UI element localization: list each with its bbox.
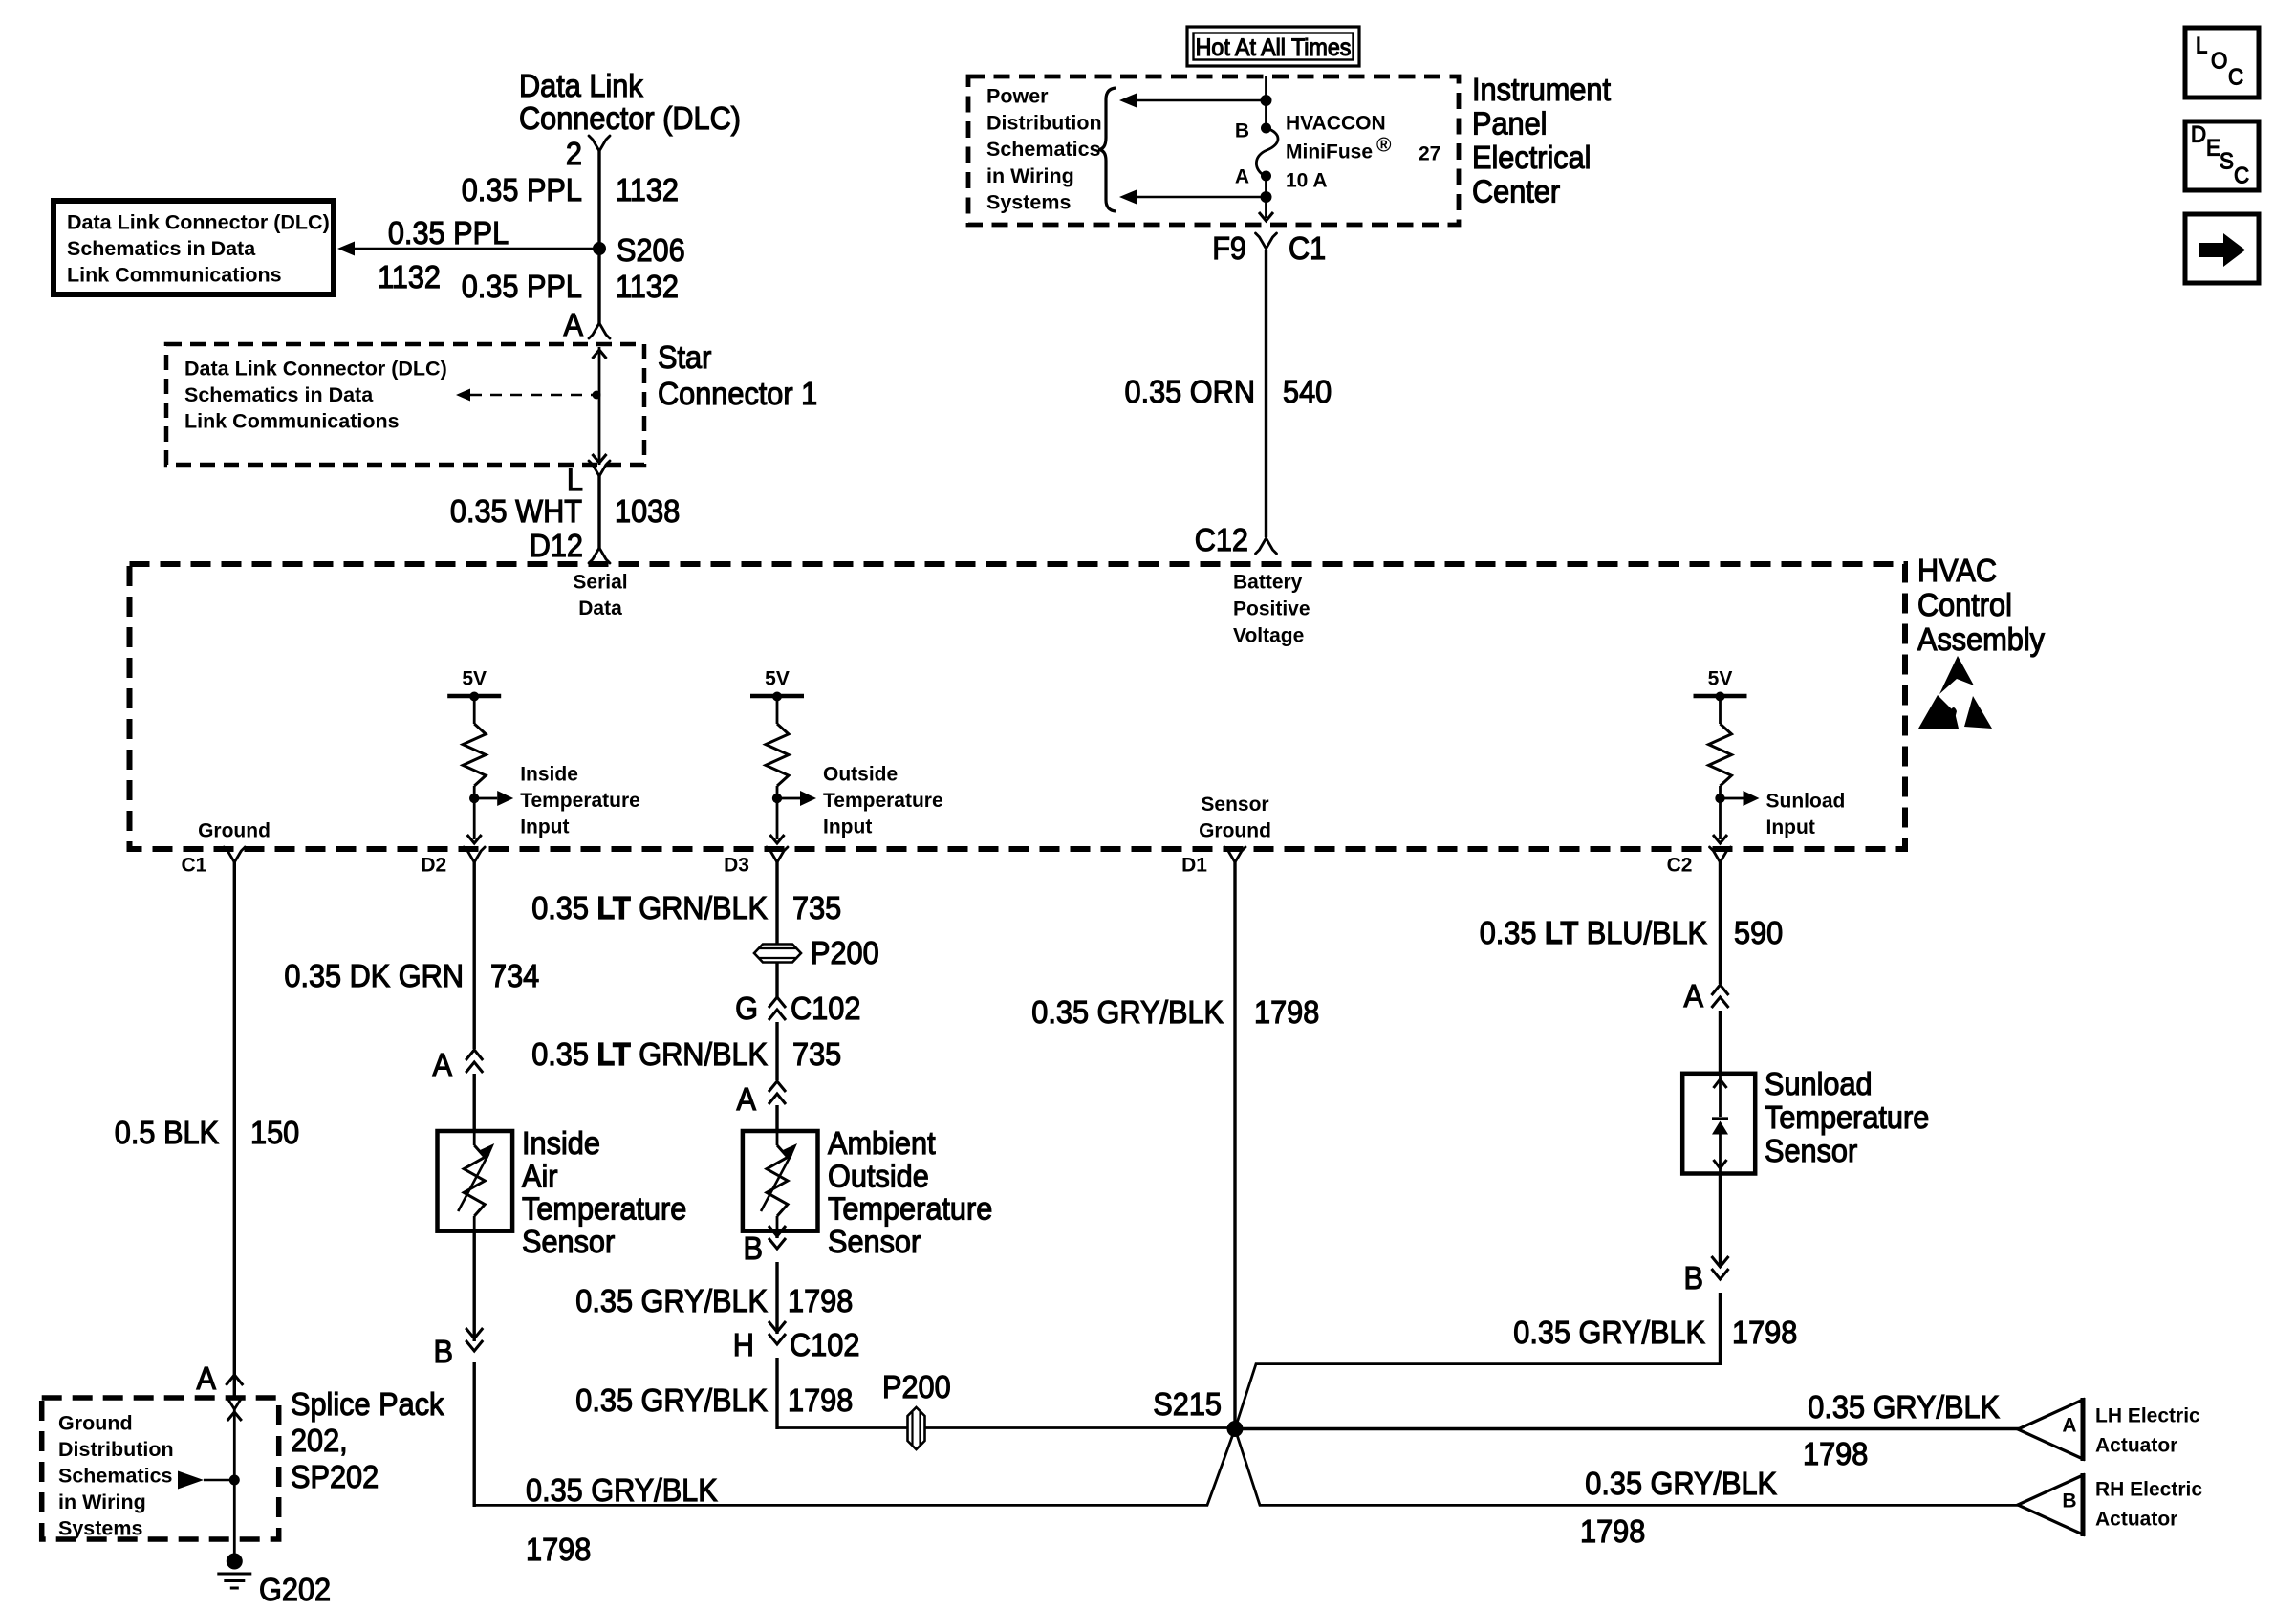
connector pin L of star connector — [567, 461, 610, 497]
component box Instrument Panel Electrical Center (dashed) — [968, 76, 1459, 225]
svg-text:G202: G202 — [259, 1572, 331, 1607]
label Sensor Ground (D1 pin) — [1199, 794, 1271, 842]
svg-text:Hot At All Times: Hot At All Times — [1196, 34, 1352, 61]
brace grouping power distribution text — [1098, 88, 1116, 211]
svg-text:Sensor: Sensor — [522, 1224, 615, 1259]
svg-text:P200: P200 — [811, 935, 879, 970]
svg-text:540: 540 — [1283, 374, 1332, 409]
wire from fuse A to C1 connector — [1265, 176, 1267, 218]
svg-text:1132: 1132 — [616, 269, 679, 304]
svg-text:Schematics: Schematics — [58, 1465, 173, 1488]
wire 1798 GRY/BLK from sunload B to S215 — [1235, 1174, 1721, 1429]
svg-text:735: 735 — [792, 1036, 841, 1072]
label 1798 (bottom left) — [526, 1532, 591, 1567]
resistor pull-up 5V #3 — [1709, 696, 1732, 798]
svg-text:1798: 1798 — [788, 1382, 853, 1418]
label Ambient Outside Temperature Sensor — [828, 1125, 992, 1259]
svg-text:D1: D1 — [1181, 854, 1207, 876]
connector F9 C1 of IP electrical center — [1212, 230, 1326, 266]
connector pin G of C102 — [735, 990, 860, 1026]
svg-text:Splice Pack: Splice Pack — [291, 1386, 444, 1422]
svg-text:Data Link Connector (DLC): Data Link Connector (DLC) — [184, 358, 447, 381]
label Battery Positive Voltage — [1233, 571, 1310, 646]
svg-text:Star: Star — [658, 339, 711, 375]
connector pin D1 of HVAC control — [1181, 847, 1245, 876]
svg-text:A: A — [197, 1360, 217, 1396]
svg-text:F9: F9 — [1212, 230, 1246, 266]
power 5V rail 5V #2 — [750, 667, 804, 701]
photodiode sunload sensor — [1712, 1074, 1728, 1174]
svg-text:Air: Air — [522, 1158, 558, 1193]
svg-text:1798: 1798 — [1732, 1315, 1797, 1350]
reference text Ground Distribution Schematics in Wiring Systems — [58, 1412, 174, 1540]
power 5V rail 5V #1 — [447, 667, 501, 701]
label 0.35 WHT 1038 — [450, 493, 680, 529]
svg-text:0.35 PPL: 0.35 PPL — [462, 172, 582, 207]
wire reference arrow A to power distribution — [1119, 190, 1267, 205]
svg-text:0.35 WHT: 0.35 WHT — [450, 493, 582, 529]
svg-text:0.35 ORN: 0.35 ORN — [1125, 374, 1256, 409]
connector pin D12 of HVAC control — [530, 528, 610, 563]
fuse pin B label — [1235, 120, 1271, 141]
wire into ambient sensor — [775, 1105, 778, 1131]
svg-text:Schematics: Schematics — [986, 138, 1101, 161]
label 1798 (RH) — [1580, 1513, 1645, 1549]
resistor pull-up 5V #1 — [463, 696, 486, 798]
wire 540 ORN from F9 to HVAC C12 — [1265, 250, 1267, 537]
svg-text:Schematics in Data: Schematics in Data — [67, 237, 256, 260]
connector pin C1 of HVAC control — [181, 847, 245, 876]
connector pin B of ambient sensor — [744, 1226, 787, 1266]
connector pin 2 of DLC — [566, 136, 610, 171]
svg-text:B: B — [1684, 1260, 1704, 1295]
wire 1798 GRY/BLK from D1 to S215 — [1233, 862, 1236, 1429]
svg-text:10 A: 10 A — [1286, 169, 1328, 191]
svg-text:Input: Input — [823, 816, 872, 838]
svg-text:L: L — [2196, 33, 2207, 59]
label HVAC Control Assembly — [1917, 553, 2045, 657]
svg-text:A: A — [564, 307, 584, 342]
connector pin B of sunload sensor — [1684, 1256, 1729, 1295]
svg-text:735: 735 — [792, 890, 841, 925]
svg-text:H: H — [733, 1327, 754, 1362]
svg-text:A: A — [1684, 978, 1704, 1013]
connector pin H of C102 — [733, 1321, 860, 1362]
svg-text:5V: 5V — [462, 667, 487, 689]
svg-text:Ground: Ground — [198, 819, 271, 841]
svg-text:1038: 1038 — [615, 493, 680, 529]
svg-text:E: E — [2206, 136, 2220, 162]
connector pin A of sunload sensor — [1684, 978, 1729, 1013]
label 0.35 GRY/BLK (bottom left) — [526, 1472, 718, 1508]
icon ESD sensitivity symbol — [1918, 656, 1992, 729]
reference text Power Distribution Schematics in Wiring Systems — [986, 85, 1102, 214]
power 5V rail 5V #3 — [1694, 667, 1747, 701]
label Sunload Input — [1766, 790, 1846, 838]
svg-text:590: 590 — [1734, 915, 1783, 950]
svg-text:Temperature: Temperature — [823, 790, 943, 812]
svg-text:RH Electric: RH Electric — [2095, 1478, 2202, 1500]
icon box arrow — [2185, 214, 2259, 283]
connector pin C12 of HVAC control — [1195, 522, 1277, 557]
svg-text:MiniFuse: MiniFuse — [1286, 141, 1373, 163]
label 0.35 PPL 1132 (lower) — [462, 269, 679, 304]
label Splice Pack 202 SP202 — [291, 1386, 444, 1494]
svg-text:Data: Data — [578, 598, 622, 620]
svg-text:A: A — [2062, 1414, 2076, 1436]
svg-text:C1: C1 — [181, 854, 206, 876]
label Sunload Temperature Sensor — [1765, 1066, 1929, 1168]
svg-text:0.35 GRY/BLK: 0.35 GRY/BLK — [526, 1472, 718, 1508]
label 0.35 GRY/BLK 1798 (D1) — [1031, 994, 1319, 1030]
svg-text:Battery: Battery — [1233, 571, 1303, 593]
label 0.35 DK GRN 734 — [284, 958, 539, 993]
thermistor ambient sensor — [761, 1131, 797, 1231]
svg-text:0.35 GRY/BLK: 0.35 GRY/BLK — [575, 1382, 768, 1418]
svg-text:Actuator: Actuator — [2095, 1434, 2177, 1456]
svg-text:HVAC: HVAC — [1917, 553, 1997, 588]
svg-text:Temperature: Temperature — [522, 1191, 686, 1227]
svg-text:0.35 GRY/BLK: 0.35 GRY/BLK — [1808, 1389, 2000, 1425]
svg-text:LH Electric: LH Electric — [2095, 1404, 2200, 1426]
svg-text:0.5 BLK: 0.5 BLK — [115, 1115, 219, 1150]
svg-text:Electrical: Electrical — [1472, 140, 1592, 175]
svg-text:Connector (DLC): Connector (DLC) — [519, 100, 741, 136]
connector B RH Electric Actuator — [2018, 1473, 2202, 1536]
svg-text:202,: 202, — [291, 1423, 348, 1458]
wire reference arrow B to power distribution — [1119, 94, 1267, 108]
label 0.35 LT GRN/BLK 735 (upper) — [531, 890, 841, 925]
svg-text:D3: D3 — [724, 854, 749, 876]
wire input arrow 5V #2 — [777, 791, 816, 806]
wire to pin 5V #1 — [467, 798, 482, 843]
svg-text:Sensor: Sensor — [1201, 794, 1268, 816]
svg-text:0.35 PPL: 0.35 PPL — [462, 269, 582, 304]
svg-text:Distribution: Distribution — [986, 111, 1102, 134]
svg-text:S: S — [2220, 149, 2234, 175]
connector into splice pack SP202 — [227, 1398, 242, 1421]
svg-text:D2: D2 — [421, 854, 446, 876]
wire 1132 PPL from DLC pin 2 to S206 — [597, 151, 600, 249]
fuse pin A label — [1235, 165, 1271, 187]
component box Sunload Temperature Sensor — [1682, 1074, 1755, 1174]
wire 150 BLK from C1 to splice pack — [233, 862, 236, 1398]
reference text DLC schematics in star box — [184, 358, 447, 433]
svg-text:Inside: Inside — [522, 1125, 600, 1161]
svg-text:Ground: Ground — [1199, 819, 1271, 841]
label Inside Temperature Input — [520, 763, 640, 838]
wire 1132 PPL branch to DLC schematics box — [337, 242, 599, 256]
svg-text:Positive: Positive — [1233, 598, 1310, 620]
component box Hot At All Times — [1187, 27, 1359, 66]
wire to pin 5V #2 — [770, 798, 785, 843]
svg-text:Panel: Panel — [1472, 106, 1548, 141]
wire 590 LT BLU/BLK from C2 to sensor A — [1719, 862, 1722, 1074]
svg-text:C2: C2 — [1667, 854, 1693, 876]
label 0.35 PPL (branch) — [388, 215, 509, 250]
wire 734 DK GRN from D2 to sensor A — [473, 862, 476, 1131]
wire 1038 WHT from star connector to HVAC D12 — [597, 476, 600, 548]
svg-text:1132: 1132 — [616, 172, 679, 207]
icon box LOC — [2185, 28, 2259, 98]
svg-text:1132: 1132 — [378, 259, 441, 294]
svg-text:0.35 PPL: 0.35 PPL — [388, 215, 509, 250]
label Star Connector 1 — [658, 339, 817, 411]
svg-text:0.35 LT GRN/BLK: 0.35 LT GRN/BLK — [531, 890, 768, 925]
label 0.35 LT BLU/BLK 590 — [1480, 915, 1784, 950]
svg-text:Voltage: Voltage — [1233, 624, 1304, 646]
svg-text:Outside: Outside — [823, 763, 898, 785]
svg-text:HVACCON: HVACCON — [1286, 112, 1386, 134]
svg-text:Instrument: Instrument — [1472, 72, 1611, 107]
node Data Link Connector (DLC) title — [519, 68, 741, 136]
label 0.5 BLK 150 — [115, 1115, 299, 1150]
wire 1132 PPL from S206 to star connector pin A — [597, 249, 600, 323]
wire input arrow 5V #1 — [474, 791, 513, 806]
ground G202 — [217, 1554, 331, 1608]
icon box DESC — [2185, 121, 2259, 190]
svg-text:P200: P200 — [882, 1369, 951, 1404]
label 0.35 PPL 1132 (upper) — [462, 172, 679, 207]
svg-text:0.35 LT BLU/BLK: 0.35 LT BLU/BLK — [1480, 915, 1707, 950]
svg-text:Link Communications: Link Communications — [67, 264, 282, 287]
svg-text:D: D — [2191, 122, 2206, 148]
wire from Hot At All Times into IP electrical center — [1265, 76, 1267, 126]
connector pin C2 of HVAC control — [1667, 847, 1731, 876]
svg-text:S206: S206 — [617, 232, 685, 268]
wire input arrow 5V #3 — [1721, 791, 1760, 806]
label 0.35 GRY/BLK 1798 (ambient upper) — [575, 1283, 853, 1318]
svg-text:Assembly: Assembly — [1917, 621, 2045, 657]
svg-text:1798: 1798 — [1254, 994, 1319, 1030]
wire splice pack internal — [233, 1409, 236, 1561]
splice S215 — [1153, 1386, 1243, 1437]
node splice junction with reference arrow — [178, 1471, 240, 1490]
svg-text:Data Link Connector (DLC): Data Link Connector (DLC) — [67, 211, 330, 234]
component box Ambient Outside Temperature Sensor — [743, 1131, 818, 1231]
svg-text:Data Link: Data Link — [519, 68, 643, 103]
grommet P200 on S215 run — [882, 1369, 951, 1449]
label 0.35 GRY/BLK (LH) — [1808, 1389, 2000, 1425]
svg-text:C1: C1 — [1289, 230, 1326, 266]
svg-text:Inside: Inside — [520, 763, 578, 785]
svg-text:A: A — [433, 1047, 453, 1082]
svg-text:0.35 GRY/BLK: 0.35 GRY/BLK — [1031, 994, 1224, 1030]
svg-text:Ambient: Ambient — [828, 1125, 936, 1161]
svg-text:B: B — [1235, 120, 1249, 141]
node junction above fuse — [1261, 95, 1272, 106]
svg-text:C102: C102 — [791, 990, 860, 1026]
node internal splice of star connector — [593, 391, 601, 400]
svg-text:D12: D12 — [530, 528, 583, 563]
wire 1798 GRY/BLK RH actuator line — [1235, 1429, 2020, 1506]
svg-text:®: ® — [1376, 134, 1392, 156]
connector pin D3 of HVAC control — [724, 847, 788, 876]
reference box Data Link Connector (DLC) Schematics in Data Link Communications — [54, 201, 334, 294]
svg-text:Input: Input — [1766, 816, 1815, 838]
svg-text:S215: S215 — [1153, 1386, 1222, 1422]
svg-text:Center: Center — [1472, 173, 1560, 208]
label 1132 (branch) — [378, 259, 441, 294]
svg-text:B: B — [744, 1230, 764, 1266]
svg-text:Link Communications: Link Communications — [184, 410, 400, 433]
svg-text:Control: Control — [1917, 587, 2012, 622]
svg-text:150: 150 — [250, 1115, 299, 1150]
label 1798 (LH) — [1803, 1436, 1868, 1471]
svg-text:C12: C12 — [1195, 522, 1248, 557]
svg-text:L: L — [567, 462, 583, 497]
label 0.35 GRY/BLK (RH) — [1585, 1466, 1777, 1501]
svg-text:0.35 GRY/BLK: 0.35 GRY/BLK — [575, 1283, 768, 1318]
svg-text:C102: C102 — [790, 1327, 859, 1362]
svg-text:C: C — [2234, 163, 2249, 189]
svg-text:Connector 1: Connector 1 — [658, 376, 817, 411]
component box Inside Air Temperature Sensor — [438, 1131, 513, 1231]
svg-text:Sensor: Sensor — [1765, 1133, 1857, 1168]
component box Ground Distribution (dashed) — [42, 1398, 279, 1539]
connector pin D2 of HVAC control — [421, 847, 485, 876]
node junction 5V #2 — [772, 794, 782, 803]
svg-text:Temperature: Temperature — [520, 790, 640, 812]
svg-text:Temperature: Temperature — [1765, 1099, 1929, 1135]
component box HVAC Control Assembly (dashed) — [130, 564, 1906, 849]
svg-text:Serial: Serial — [573, 571, 627, 593]
svg-text:G: G — [735, 990, 758, 1026]
svg-text:Power: Power — [986, 85, 1049, 108]
resistor pull-up 5V #2 — [766, 696, 789, 798]
label Instrument Panel Electrical Center — [1472, 72, 1611, 208]
svg-text:Sunload: Sunload — [1765, 1066, 1873, 1101]
svg-text:Sunload: Sunload — [1766, 790, 1846, 812]
connector pin B of inside air sensor — [434, 1328, 484, 1369]
svg-text:5V: 5V — [765, 667, 790, 689]
connector pin A of inside air sensor — [433, 1047, 484, 1082]
wire to pin 5V #3 — [1713, 798, 1727, 843]
svg-text:Systems: Systems — [986, 191, 1071, 214]
svg-text:0.35 LT GRN/BLK: 0.35 LT GRN/BLK — [531, 1036, 768, 1072]
svg-text:0.35 GRY/BLK: 0.35 GRY/BLK — [1513, 1315, 1705, 1350]
connector pin A of ambient sensor — [737, 1081, 787, 1117]
grommet P200 on D3 wire — [754, 935, 879, 970]
arrow leaving IP electrical center — [1259, 212, 1273, 221]
svg-text:0.35 DK GRN: 0.35 DK GRN — [284, 958, 464, 993]
node junction 5V #3 — [1715, 794, 1724, 803]
svg-text:A: A — [737, 1081, 757, 1117]
svg-text:1798: 1798 — [788, 1283, 853, 1318]
node junction 5V #1 — [469, 794, 479, 803]
wire 1798 GRY/BLK from inside air sensor B — [473, 1231, 476, 1507]
wire 735 LT GRN/BLK from C102 to sensor A — [775, 1022, 778, 1080]
svg-text:Temperature: Temperature — [828, 1191, 992, 1227]
label 0.35 ORN 540 — [1125, 374, 1332, 409]
component box Star Connector 1 (dashed) — [166, 344, 644, 465]
svg-text:2: 2 — [566, 136, 582, 171]
svg-text:Actuator: Actuator — [2095, 1508, 2177, 1530]
svg-text:SP202: SP202 — [291, 1459, 379, 1494]
svg-text:A: A — [1235, 165, 1249, 187]
wire 1798 GRY/BLK bottom run to S215 — [474, 1429, 1235, 1506]
svg-text:in Wiring: in Wiring — [986, 164, 1074, 187]
svg-text:5V: 5V — [1708, 667, 1733, 689]
svg-text:C: C — [2228, 65, 2243, 91]
svg-text:Systems: Systems — [58, 1516, 142, 1539]
svg-text:27: 27 — [1419, 142, 1440, 164]
svg-text:Schematics in Data: Schematics in Data — [184, 383, 374, 406]
connector A LH Electric Actuator — [2018, 1398, 2200, 1461]
label 0.35 GRY/BLK 1798 (ambient lower) — [575, 1382, 853, 1418]
connector A of splice pack — [197, 1360, 244, 1396]
svg-text:1798: 1798 — [1580, 1513, 1645, 1549]
label Ground (C1 pin) — [198, 819, 271, 841]
svg-text:734: 734 — [490, 958, 539, 993]
svg-text:Ground: Ground — [58, 1412, 133, 1435]
wire 1798 GRY/BLK LH actuator line — [1235, 1427, 2020, 1430]
wire 1798 GRY/BLK from C102 H to S215 — [777, 1358, 1235, 1429]
svg-text:Input: Input — [520, 816, 569, 838]
splice S206 — [593, 232, 685, 268]
svg-text:Distribution: Distribution — [58, 1438, 174, 1461]
svg-text:0.35 GRY/BLK: 0.35 GRY/BLK — [1585, 1466, 1777, 1501]
fuse F27 HVACCON MiniFuse 10A element — [1256, 128, 1278, 176]
svg-text:in Wiring: in Wiring — [58, 1490, 146, 1513]
wire dashed reference arrow to DLC schematics — [456, 389, 593, 402]
svg-text:Sensor: Sensor — [828, 1224, 921, 1259]
wire inside star connector — [593, 347, 607, 465]
svg-text:B: B — [2062, 1490, 2076, 1512]
label 0.35 LT GRN/BLK 735 (lower) — [531, 1036, 841, 1072]
label 0.35 GRY/BLK 1798 (sunload) — [1513, 1315, 1797, 1350]
node junction below fuse — [1261, 191, 1272, 203]
thermistor inside air sensor — [458, 1131, 494, 1231]
label HVACCON MiniFuse 27 10A — [1286, 112, 1440, 191]
svg-text:1798: 1798 — [526, 1532, 591, 1567]
wire 1798 GRY/BLK from ambient B to C102 H — [775, 1231, 778, 1334]
label Outside Temperature Input — [823, 763, 943, 838]
connector pin A of star connector — [564, 307, 611, 342]
svg-text:O: O — [2211, 49, 2227, 75]
svg-text:Outside: Outside — [828, 1158, 929, 1193]
wire 735 LT GRN/BLK from D3 to C102 — [775, 862, 778, 997]
svg-text:B: B — [434, 1334, 454, 1369]
label Inside Air Temperature Sensor — [522, 1125, 686, 1259]
svg-text:1798: 1798 — [1803, 1436, 1868, 1471]
label Serial Data — [573, 571, 627, 620]
